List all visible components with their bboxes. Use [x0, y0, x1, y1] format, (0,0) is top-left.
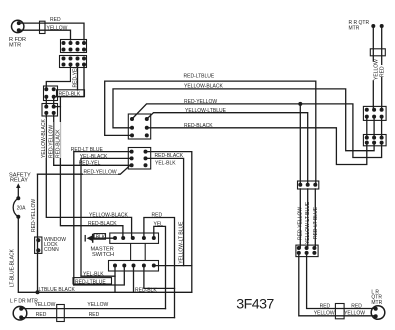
ground arrow BLK — [85, 234, 115, 242]
svg-text:MTR: MTR — [371, 300, 382, 306]
wires C8 to C9 — [366, 117, 368, 139]
svg-text:YELLOW-LTBLUE: YELLOW-LTBLUE — [185, 108, 227, 114]
label YELLOW rotated — [373, 59, 380, 80]
connector block C2 upper — [61, 40, 87, 53]
svg-text:RED-BLACK: RED-BLACK — [88, 221, 117, 227]
svg-text:RED: RED — [36, 312, 47, 318]
wire MS lower dot4 to RED — [144, 266, 175, 289]
connector C4 — [42, 104, 58, 117]
svg-text:RED-BLK: RED-BLK — [59, 92, 81, 98]
wire YEL-BLK row2 into block — [81, 158, 132, 276]
wire YELLOW-BLACK vertical x46.3 — [46, 113, 131, 238]
label LT-BLUE-BLACK rotated — [9, 240, 16, 287]
wire YELLOW LF — [21, 308, 165, 310]
svg-text:RED-YELLOW: RED-YELLOW — [84, 170, 117, 176]
svg-text:LT-BLUE-BLACK: LT-BLUE-BLACK — [10, 248, 16, 287]
svg-text:YELLOW-LT BLUE: YELLOW-LT BLUE — [305, 201, 311, 244]
svg-text:YEL-BLK: YEL-BLK — [83, 271, 104, 277]
safety relay arrow — [9, 173, 31, 199]
wire RED-BLACK vertical x60.4 — [60, 97, 123, 238]
connector inline C12 — [335, 304, 344, 319]
wire RED-YELLOW branch down to C10 — [299, 104, 301, 185]
svg-text:3F437: 3F437 — [236, 297, 274, 313]
label RED-BLACK rotated — [55, 122, 62, 158]
label RED-LTBLUE boxed — [73, 278, 112, 286]
master switch U1 — [91, 233, 159, 271]
label RED rotated — [379, 65, 386, 77]
circuit breaker 20A — [13, 196, 26, 219]
svg-text:YELLOW-BLACK: YELLOW-BLACK — [184, 84, 223, 90]
svg-text:MTR: MTR — [349, 26, 360, 32]
window lock connector — [35, 237, 67, 254]
label RED-BLK boxed — [57, 90, 85, 98]
svg-text:YELLOW: YELLOW — [373, 59, 379, 80]
connector C10 mid right — [298, 181, 319, 189]
svg-text:YELLOW: YELLOW — [87, 302, 108, 308]
wire bus RED-YELLOW top with diagonal — [132, 104, 382, 158]
wire MS lower dot1 down to bottom net — [114, 266, 116, 293]
connector block C5 upper (master switch top) — [128, 114, 150, 139]
connector block C5 lower — [128, 148, 150, 170]
svg-text:YELLOW-LT BLUE: YELLOW-LT BLUE — [178, 221, 184, 264]
wire block row1 right RED-BLACK — [146, 152, 192, 293]
svg-text:RED: RED — [152, 213, 163, 219]
wire bus YELLOW-BLACK top — [113, 89, 374, 151]
svg-text:RED-YELLOW: RED-YELLOW — [184, 99, 217, 105]
wire RED from R FDR MTR — [19, 23, 84, 40]
wire block row2 right YEL-BLK — [146, 158, 184, 265]
wire MS lower dot2 RED-LTBLUE loop — [74, 266, 125, 285]
wire RED LF — [21, 317, 174, 319]
svg-text:RED-LTBLUE: RED-LTBLUE — [75, 280, 106, 286]
wire MS lower dot5 right and down — [154, 265, 192, 267]
svg-text:BLK: BLK — [96, 235, 106, 241]
wire col4 to connector C3 — [54, 65, 84, 97]
label RED-YELLOW rotated — [47, 122, 54, 158]
wire YEL-BLK loop left — [81, 275, 115, 277]
wire RED from MS dot4 up-over and down to LF motor — [144, 218, 175, 318]
wire RED to LR QTR — [307, 253, 376, 309]
svg-text:RED: RED — [380, 66, 386, 77]
svg-text:YELLOW: YELLOW — [35, 302, 56, 308]
wire bus RED-BLACK — [147, 128, 367, 165]
svg-text:SWITCH: SWITCH — [92, 252, 114, 258]
wire col3 down — [77, 65, 79, 91]
label RED-YELLOW rotated — [30, 196, 37, 232]
motor M4 L R QTR MTR — [371, 289, 385, 319]
svg-text:YEL-BLK: YEL-BLK — [155, 161, 176, 167]
svg-text:RED-BLACK: RED-BLACK — [56, 129, 62, 158]
wires RR QTR down — [372, 26, 374, 110]
connector block C8 upper right — [363, 106, 386, 120]
connector inline C1 — [40, 21, 46, 33]
junction dot — [36, 290, 40, 294]
motor M3 R R QTR MTR pins — [349, 20, 384, 32]
connector block C11 bottom right — [296, 245, 318, 257]
svg-text:RED: RED — [50, 17, 61, 23]
label RED-YEL rotated — [71, 66, 79, 88]
wire RED-LT BLUE row1 into block — [74, 152, 132, 285]
wires C3 to C4 — [45, 97, 47, 107]
svg-text:YELLOW: YELLOW — [314, 311, 335, 317]
connector block C9 lower right — [363, 135, 386, 146]
svg-text:RED-LT BLUE: RED-LT BLUE — [313, 206, 319, 239]
svg-text:RED: RED — [351, 303, 362, 309]
motor M2 L F DR MTR — [10, 298, 38, 320]
svg-text:YELLOW-BLACK: YELLOW-BLACK — [89, 212, 128, 218]
junction dot RED-YELLOW bus — [298, 102, 302, 106]
svg-text:MTR: MTR — [9, 43, 21, 49]
wire YELLOW to LR QTR — [299, 253, 376, 316]
label YELLOW-BLACK rotated — [40, 118, 47, 158]
wire col2 to connector C3 — [46, 65, 70, 90]
svg-text:YELLOW-BLACK: YELLOW-BLACK — [41, 119, 47, 158]
connector C3 — [44, 86, 58, 101]
wire RED-YELLOW vertical x53.7 — [54, 113, 132, 165]
svg-text:RELAY: RELAY — [10, 177, 28, 183]
wire stub C4 TR to x60.4 — [54, 106, 61, 108]
connector block C2 lower — [60, 56, 87, 68]
svg-text:CONN: CONN — [44, 247, 59, 253]
wire MS lower dot3 to bottom net — [133, 266, 135, 293]
svg-text:RED-YEL: RED-YEL — [79, 161, 101, 167]
wire bus RED-LTBLUE top — [105, 81, 316, 185]
svg-text:RED-YELLOW: RED-YELLOW — [298, 207, 304, 240]
svg-text:RED-LT BLUE: RED-LT BLUE — [71, 147, 104, 153]
svg-text:YELLOW: YELLOW — [344, 311, 365, 317]
wire YELLOW from R FDR MTR — [19, 30, 71, 40]
wire bus YELLOW-LTBLUE with diagonal — [147, 113, 308, 185]
svg-text:YEL: YEL — [154, 222, 164, 228]
wire RED-YELLOW window lock — [37, 174, 39, 292]
svg-text:RED-YELLOW: RED-YELLOW — [48, 125, 54, 158]
connector inline C7 — [370, 49, 385, 56]
connector inline C6 — [57, 305, 65, 322]
svg-text:RED-LTBLUE: RED-LTBLUE — [184, 74, 215, 80]
wire YELLOW from MS dot5 up-over and down to LF motor — [154, 226, 166, 308]
wire LT BLUE-BLACK — [18, 217, 192, 292]
svg-text:RED: RED — [89, 312, 100, 318]
wires C10 down to C11 — [299, 189, 301, 248]
svg-text:RED-BLACK: RED-BLACK — [184, 123, 213, 129]
wire RED-YELLOW row4 with diagonal — [38, 167, 129, 175]
motor M1 R FDR MTR — [9, 20, 26, 48]
label RED-YELLOW — [83, 169, 118, 176]
svg-text:RED: RED — [320, 303, 331, 309]
svg-text:RED-YELLOW: RED-YELLOW — [31, 199, 37, 232]
svg-text:YEL-BLACK: YEL-BLACK — [80, 154, 108, 160]
svg-text:20A: 20A — [17, 206, 27, 212]
svg-text:LTBLUE BLACK: LTBLUE BLACK — [39, 287, 76, 293]
svg-text:YELLOW: YELLOW — [47, 25, 68, 31]
